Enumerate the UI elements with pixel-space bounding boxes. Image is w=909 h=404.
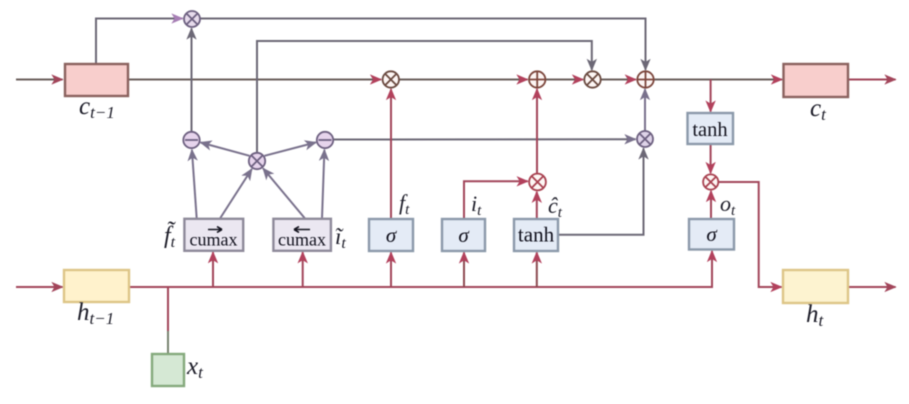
svg-text:cumax: cumax (190, 230, 238, 250)
wire mul_purple up to plus2 (644, 89, 646, 131)
wire h to cumax1 (212, 252, 214, 287)
svg-text:ot: ot (720, 191, 736, 219)
wire x_t branch (167, 287, 169, 332)
wire c-line segment plus1 to mul_omega (545, 79, 583, 81)
box sigma f (369, 219, 413, 251)
svg-text:tanh: tanh (518, 223, 555, 247)
wire x_t branch lower (167, 331, 169, 354)
wire tanh right side to mul_purple (558, 148, 644, 234)
node minus2 (317, 132, 333, 148)
node minus1 (183, 132, 199, 148)
node mul purple (i-tilde minus omega times c-hat) (637, 131, 653, 147)
wire minus2 output to mul_purple (334, 138, 636, 140)
wire c input arrow (16, 79, 63, 81)
wire mul_center to minus1 (201, 143, 250, 156)
wire c-line segment mul_omega to plus2 (601, 79, 636, 81)
node plus1 (529, 71, 545, 87)
wire c-line down to tanh2 (710, 80, 712, 112)
svg-text:ĩt: ĩt (335, 224, 346, 252)
wire c top branch to mul_top (96, 19, 183, 65)
box cumax1 (184, 219, 243, 251)
wire h output arrow (848, 286, 896, 288)
wire i gate to mul_ic (464, 181, 528, 218)
svg-text:ct−1: ct−1 (79, 93, 115, 122)
svg-text:ht: ht (806, 301, 825, 330)
wire f gate up to mul_f (390, 89, 392, 218)
svg-text:σ: σ (386, 223, 398, 247)
wire h to cumax2 (302, 252, 304, 287)
node mul ic (529, 174, 546, 191)
node mul center (omega) (249, 153, 265, 169)
wire c-line segment c_{t-1} to mul_f (128, 79, 381, 81)
wire c-line segment plus2 to c_t (654, 79, 783, 81)
box cumax2 (273, 219, 331, 251)
svg-text:cumax: cumax (278, 230, 326, 250)
box c_t (784, 64, 849, 97)
wire h to sigma_i (463, 252, 465, 287)
box h_t (783, 270, 848, 303)
node mul omega (584, 71, 600, 87)
wire cumax2 to mul_center (263, 168, 305, 218)
box x_t (152, 354, 184, 386)
node mul f (383, 71, 399, 87)
svg-text:ĉt: ĉt (548, 193, 563, 221)
svg-text:σ: σ (458, 223, 470, 247)
wire c-line segment mul_f to plus1 (399, 79, 528, 81)
svg-text:ft: ft (399, 190, 410, 218)
node plus2 (637, 71, 653, 87)
box sigma i (442, 219, 485, 251)
wire mul_top output along top to plus2 (200, 19, 646, 70)
wire mul_o output to h_t (719, 182, 782, 287)
wire c-hat up to mul_ic (536, 192, 538, 219)
wire cumax1 to mul_center (220, 169, 252, 219)
svg-text:ht−1: ht−1 (77, 299, 114, 328)
wire h input arrow (16, 286, 63, 288)
svg-text:σ: σ (706, 222, 718, 246)
wire mul_ic up to plus1 (536, 89, 538, 173)
node mul o (703, 174, 718, 189)
wire tanh2 down to mul_o (710, 144, 712, 173)
svg-text:xt: xt (186, 353, 204, 382)
svg-text:it: it (471, 191, 482, 219)
box sigma o (689, 219, 734, 250)
box tanh c-hat (514, 219, 558, 251)
box h_{t-1} (64, 270, 129, 302)
wire o gate up to mul_o (710, 191, 712, 219)
svg-text:tanh: tanh (692, 119, 727, 141)
wire omega from mul_center to mul_omega (257, 41, 592, 153)
wire h to tanh1 (536, 252, 538, 287)
box c_{t-1} (65, 64, 128, 96)
wire minus1 up to mul_top (191, 29, 193, 132)
node mul top (f-tilde minus omega times c) (184, 11, 200, 27)
box tanh c_t (688, 113, 734, 144)
svg-text:ct: ct (810, 95, 827, 124)
wire cumax1 to minus1 (192, 150, 197, 219)
wire c output arrow (848, 79, 896, 81)
svg-text:f̃t: f̃t (164, 221, 176, 251)
wire mul_center to minus2 (265, 142, 316, 155)
wire h main line to sigma_o (129, 251, 712, 287)
wire h to sigma_f (390, 252, 392, 287)
wire cumax2 to minus2 (322, 150, 324, 219)
